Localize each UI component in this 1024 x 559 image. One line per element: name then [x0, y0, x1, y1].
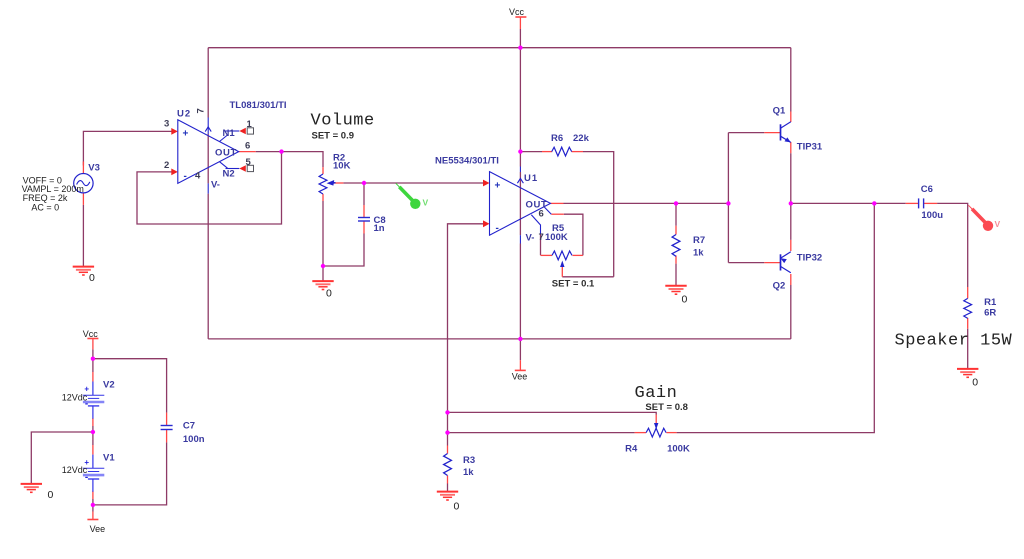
svg-text:V: V — [423, 198, 429, 208]
wire V1 bottom to Vee node — [92, 499, 94, 507]
arrow into U1 minus input — [483, 220, 490, 227]
wire R6 right to feedback vertical — [583, 152, 614, 277]
power symbol Vcc top bar — [515, 16, 526, 18]
svg-text:V1: V1 — [103, 452, 115, 463]
wire R5 top side — [564, 214, 583, 255]
pin stub R3 top — [447, 446, 449, 454]
wire Q2 emitter up to output node — [790, 203, 792, 240]
arrow U2 pin N2 — [239, 165, 246, 172]
pin stub V2 bottom — [92, 418, 94, 426]
svg-text:R4: R4 — [625, 443, 638, 454]
op-amp U1 NE5534 body — [490, 167, 552, 244]
pin stub R7 bottom — [675, 256, 677, 264]
svg-text:+: + — [495, 180, 501, 191]
wire SET 0.1 row to R5 wiper — [562, 276, 613, 278]
junction Vee battery node — [91, 503, 95, 507]
svg-text:Q1: Q1 — [773, 106, 786, 117]
pin stub R5 left — [541, 254, 553, 256]
wire U1 supply vertical upper — [519, 48, 521, 167]
wire mid node to left ground — [31, 432, 93, 483]
wire Q1 base stub outer — [728, 132, 764, 134]
wire U2 V+ to V- through body — [207, 134, 209, 183]
svg-text:5: 5 — [246, 157, 252, 168]
svg-text:R1: R1 — [984, 297, 997, 308]
wire R6 left lead from supply line — [520, 151, 542, 153]
pin stub C7 bottom — [166, 430, 168, 443]
svg-text:N2: N2 — [223, 169, 235, 180]
svg-text:SET = 0.9: SET = 0.9 — [312, 131, 355, 142]
wire R1 bottom to ground — [967, 329, 969, 369]
resistor R6 zigzag — [552, 147, 572, 156]
junction R6 left on supply line — [518, 149, 522, 153]
junction R2 wiper C8 top — [362, 181, 366, 185]
pin stub Q1 base — [764, 132, 780, 134]
pin stub U2 output — [239, 151, 256, 153]
svg-text:SET = 0.8: SET = 0.8 — [645, 402, 688, 413]
junction battery mid node — [91, 430, 95, 434]
pin stub C6 left — [906, 202, 919, 204]
pin stub R5 right — [573, 254, 583, 256]
pin stub Vcc left — [92, 339, 94, 350]
resistor R4 wiper arrow — [654, 423, 658, 430]
svg-text:100n: 100n — [183, 434, 205, 445]
wire U2 output to R2 top — [256, 152, 323, 168]
resistor R3 zigzag — [444, 454, 452, 476]
svg-text:Gain: Gain — [635, 384, 678, 403]
svg-text:6: 6 — [245, 141, 250, 152]
svg-text:0: 0 — [48, 489, 54, 501]
wire U1 supply vertical through body — [519, 172, 521, 235]
svg-text:3: 3 — [164, 119, 169, 130]
wire R2 bottom to ground junction — [322, 201, 324, 281]
wire V3 bottom to ground — [82, 205, 84, 266]
pin stub R2 bottom — [322, 194, 324, 201]
svg-text:6R: 6R — [984, 308, 996, 319]
pin stub V1 top — [92, 445, 94, 455]
svg-text:-: - — [496, 223, 499, 234]
wire U1 V- to bottom rail — [519, 244, 521, 339]
wire C6 right to output corner — [937, 203, 968, 287]
junction R2 bottom C8 bottom — [321, 264, 325, 268]
transistor Q2 collector diagonal — [781, 266, 791, 272]
svg-text:0: 0 — [89, 272, 95, 284]
wire U1 output row to bases node — [564, 202, 729, 204]
junction SET row on R3 vertical — [445, 410, 449, 414]
transistor Q1 collector diagonal — [781, 122, 791, 128]
svg-text:Vee: Vee — [512, 371, 528, 381]
voltage probe green — [396, 183, 421, 209]
source V3 circle — [74, 174, 93, 193]
pin stub Q2 base — [764, 262, 780, 264]
wire U2 V- down to bottom rail — [207, 194, 209, 339]
svg-text:7: 7 — [196, 108, 207, 113]
pin stub Vee left bottom — [92, 512, 94, 520]
junction Vcc top rail — [518, 46, 522, 50]
pin stub Q2 collector — [790, 274, 792, 285]
junction U2 output feedback — [279, 149, 283, 153]
op-amp U1 plus minus glyphs — [495, 180, 501, 234]
resistor R5 zigzag (pot) — [552, 251, 572, 260]
svg-text:0: 0 — [454, 501, 460, 513]
wire left box edge (U2 supply line) — [207, 48, 209, 118]
svg-text:100u: 100u — [921, 210, 943, 221]
wire bottom Vee rail — [208, 338, 791, 340]
wire V2 bottom to mid node — [92, 426, 94, 445]
svg-text:1: 1 — [247, 119, 253, 130]
svg-text:C7: C7 — [183, 421, 195, 432]
wire transistor bases vertical — [727, 133, 729, 263]
arrow into U2 minus input — [171, 169, 178, 176]
svg-text:Speaker 15W: Speaker 15W — [895, 332, 1013, 351]
svg-text:N1: N1 — [223, 128, 236, 139]
svg-text:100K: 100K — [667, 443, 690, 454]
svg-text:V-: V- — [526, 233, 535, 244]
wire Q1 collector up to rail — [790, 48, 792, 112]
resistor R4 zigzag (pot) — [646, 428, 666, 437]
capacitor C6 plates — [919, 198, 924, 208]
wire U2 feedback loop — [137, 152, 282, 224]
svg-text:22k: 22k — [573, 133, 590, 144]
svg-text:AC = 0: AC = 0 — [31, 202, 59, 212]
arrow into U1 plus input — [483, 180, 490, 187]
svg-text:12Vdc: 12Vdc — [62, 465, 88, 475]
svg-text:4: 4 — [195, 170, 201, 181]
wire output node to C6 — [791, 202, 906, 204]
wire Vee below bottom rail — [519, 339, 521, 360]
svg-text:Vee: Vee — [90, 524, 106, 534]
svg-text:0: 0 — [326, 288, 332, 300]
op-amp U2 offset pin squares — [247, 128, 253, 172]
svg-text:10K: 10K — [333, 161, 351, 172]
pin stub R1 top — [967, 287, 969, 298]
svg-text:OUT: OUT — [215, 148, 237, 159]
junction Vcc battery node — [91, 357, 95, 361]
wire top Vcc rail — [208, 47, 791, 49]
svg-text:NE5534/301/TI: NE5534/301/TI — [435, 156, 499, 167]
pin stub V2 top — [92, 372, 94, 382]
wire R3 bottom to ground — [447, 484, 449, 492]
wire C8 top lead — [363, 183, 365, 205]
svg-text:0: 0 — [972, 377, 978, 389]
battery V2 — [83, 382, 104, 419]
pin stub C7 top — [166, 413, 168, 426]
power symbol Vee mid bar — [515, 369, 526, 371]
svg-text:1n: 1n — [374, 223, 385, 234]
junction gain row on R3 vertical — [445, 430, 449, 434]
pin stub R1 bottom — [967, 318, 969, 329]
svg-text:U2: U2 — [177, 109, 191, 120]
pin stub R6 left — [542, 151, 552, 153]
wire Q2 collector down to bottom rail — [790, 285, 792, 339]
ground under R7 — [665, 286, 686, 294]
power symbol Vcc left bar — [87, 338, 98, 340]
svg-text:V-: V- — [211, 180, 220, 191]
ground under V3 — [73, 267, 94, 275]
svg-text:7: 7 — [539, 232, 544, 243]
svg-text:2: 2 — [164, 160, 169, 171]
svg-text:U1: U1 — [524, 173, 538, 184]
svg-text:C6: C6 — [921, 184, 933, 195]
svg-text:R7: R7 — [693, 235, 705, 246]
svg-text:-: - — [184, 171, 187, 182]
svg-text:TL081/301/TI: TL081/301/TI — [230, 100, 287, 111]
svg-text:SET = 0.1: SET = 0.1 — [552, 278, 595, 289]
wire R7 bottom to ground — [675, 264, 677, 286]
pin stub Q1 emitter — [790, 142, 792, 153]
battery V1 — [83, 455, 104, 492]
svg-text:V3: V3 — [88, 163, 100, 174]
voltage probe red — [969, 205, 994, 231]
wire C7 bottom to Vee node — [93, 442, 167, 505]
transistor Q1 emitter diagonal with arrow — [781, 136, 791, 142]
wire Vcc stub top — [519, 29, 521, 48]
pin stub R2 wiper — [330, 182, 343, 184]
svg-text:0: 0 — [682, 294, 688, 306]
wire SET 0.8 row — [448, 412, 657, 414]
svg-text:Vcc: Vcc — [83, 329, 99, 339]
svg-text:6: 6 — [539, 209, 544, 220]
wire feedback from output down to gain row — [677, 203, 875, 432]
transistor Q1 base bar — [780, 124, 782, 140]
arrow U2 pin N1 — [239, 128, 246, 135]
pin stub Q1 collector — [790, 112, 792, 123]
ground under R2/C8 — [312, 281, 333, 289]
ground under R1 — [957, 369, 978, 377]
svg-text:12Vdc: 12Vdc — [62, 392, 88, 402]
svg-text:OUT: OUT — [526, 200, 548, 211]
wire V3 top to U2 plus input — [83, 131, 171, 165]
pin stub Vcc top — [519, 17, 521, 29]
wire R5 left lead vertical — [540, 234, 542, 255]
op-amp U2 TL081 body — [178, 118, 240, 194]
junction Vee bottom rail — [518, 337, 522, 341]
resistor R7 zigzag — [672, 235, 680, 257]
pin stub R2 top — [322, 167, 324, 174]
op-amp U1 V+ chevron — [517, 178, 523, 183]
pin stub C8 top — [363, 205, 365, 218]
svg-text:Q2: Q2 — [773, 281, 786, 292]
resistor R5 wiper arrow — [560, 261, 564, 268]
junction emitters node — [789, 201, 793, 205]
svg-text:TIP31: TIP31 — [797, 142, 823, 153]
svg-text:100K: 100K — [545, 232, 568, 243]
svg-text:Volume: Volume — [311, 111, 375, 130]
pin stub C8 bottom — [363, 221, 365, 234]
pin stub U1 output — [551, 202, 564, 204]
transistor Q2 emitter diagonal with arrow — [781, 252, 791, 258]
ground left of batteries — [21, 484, 42, 492]
wire Vcc left node down to V2 — [92, 349, 94, 372]
junction bases node — [726, 201, 730, 205]
wire R2 ground junction to C8 bottom — [323, 234, 364, 267]
svg-text:R6: R6 — [551, 133, 563, 144]
resistor R1 zigzag — [964, 298, 972, 318]
arrow into U2 plus input — [171, 128, 178, 135]
ground under R3 — [437, 492, 458, 500]
svg-text:R3: R3 — [463, 455, 475, 466]
svg-text:1k: 1k — [463, 467, 474, 478]
pin stub Q2 emitter — [790, 240, 792, 251]
power symbol Vee left bar — [87, 519, 98, 521]
capacitor C7 plates — [161, 426, 173, 430]
op-amp U2 V+ chevron — [205, 127, 211, 132]
resistor R2 zigzag (pot) — [319, 174, 327, 194]
wire Vee node stub down — [92, 505, 94, 512]
pin stub R7 top — [675, 226, 677, 235]
pin stub U1 comp upper — [551, 213, 564, 215]
wire Q1 emitter down to output node — [790, 153, 792, 203]
transistor Q2 base bar — [780, 254, 782, 270]
pin stub C6 right — [924, 202, 938, 204]
wire R7 top lead — [675, 203, 677, 225]
svg-text:V: V — [995, 219, 1001, 229]
svg-text:V2: V2 — [103, 380, 115, 391]
svg-text:Vcc: Vcc — [509, 7, 525, 17]
pin stub R4 right — [666, 432, 676, 434]
source V3 sine wave — [77, 181, 90, 186]
pin stub V1 bottom — [92, 491, 94, 499]
wire Q2 base stub outer — [728, 262, 764, 264]
op-amp U2 plus minus glyphs — [183, 129, 189, 183]
wire U1 minus input to lower network — [448, 224, 484, 446]
svg-text:1k: 1k — [693, 247, 704, 258]
svg-text:TIP32: TIP32 — [797, 252, 822, 263]
capacitor C8 plates — [358, 218, 370, 222]
pin stub R4 wiper top — [655, 415, 657, 424]
wire Vcc node to C7 top — [93, 359, 167, 413]
pin stub R6 right — [572, 151, 584, 153]
pin stub R3 bottom — [447, 476, 449, 484]
junction feedback tap — [872, 201, 876, 205]
resistor R2 wiper arrow — [327, 180, 335, 186]
pin stub V3 top — [82, 162, 84, 174]
svg-text:+: + — [183, 129, 189, 140]
junction R7 top on output row — [674, 201, 678, 205]
pin stub V3 bottom — [82, 193, 84, 205]
wire R2 wiper to C8 top junction to U1 plus input — [343, 182, 484, 184]
power symbol Vee mid stub — [519, 360, 521, 370]
pin stub R5 wiper — [561, 267, 563, 277]
pin stub R4 left — [635, 432, 647, 434]
wire gain row R4 left to R3 node — [448, 432, 635, 434]
